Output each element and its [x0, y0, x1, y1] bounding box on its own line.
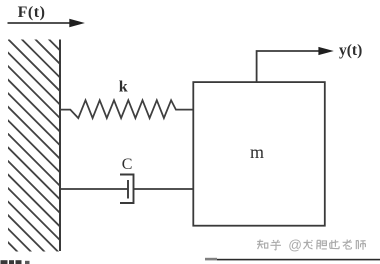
- svg-text:@: @: [288, 238, 302, 253]
- svg-text:F(t): F(t): [18, 4, 46, 21]
- svg-text:y(t): y(t): [339, 42, 362, 59]
- svg-text:k: k: [119, 79, 128, 96]
- svg-text:m: m: [250, 142, 264, 162]
- svg-text:C: C: [122, 156, 133, 173]
